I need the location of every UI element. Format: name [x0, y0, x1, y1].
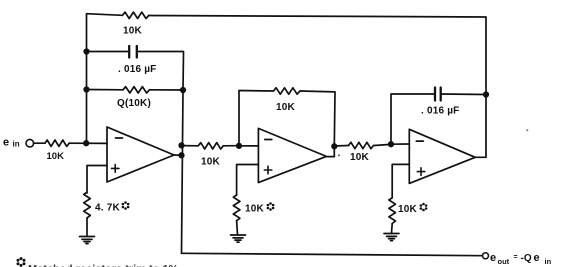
- ground G1: [80, 237, 95, 244]
- node: Q row right junction: [181, 88, 186, 93]
- op-amp U2 plus sign: [264, 166, 272, 174]
- op-amp U1 plus sign: [112, 165, 120, 173]
- wire: main output vertical (Q row to bottom wire): [182, 90, 184, 253]
- svg-text:10K: 10K: [350, 152, 370, 163]
- asterisk after 10K (U2): [267, 202, 275, 211]
- svg-text:-Q: -Q: [521, 253, 532, 264]
- wire: cap to right vertical node: [442, 93, 486, 96]
- svg-text:in: in: [545, 257, 552, 266]
- resistor R7 10K vertical: [389, 198, 396, 224]
- resistor R5 10K vertical: [233, 195, 240, 221]
- node: input node A: [84, 141, 89, 146]
- resistor Q(10K) row: [87, 89, 124, 91]
- wire: top feedback to right corner and down: [149, 16, 486, 95]
- capacitor C2 .016uF plates: [435, 88, 441, 101]
- op-amp U2 minus sign: [265, 139, 272, 141]
- wire: U2 plus input to ground resistor: [237, 165, 259, 196]
- wire: right vertical down to op-amp 3 output: [475, 95, 486, 158]
- wire: to op-amp3 minus node: [374, 144, 392, 145]
- asterisk footnote marker: [17, 257, 26, 267]
- op-amp U1 triangle: [107, 127, 174, 182]
- capacitor C1 row left wire: [87, 51, 129, 53]
- node: U3 minus junction: [389, 142, 394, 147]
- wire: bottom feedback to e out: [182, 253, 483, 255]
- wire: U1 plus input to ground resistor: [87, 166, 107, 194]
- speck: [526, 129, 528, 131]
- input terminal circle: [26, 139, 34, 147]
- svg-text:10K: 10K: [398, 204, 418, 215]
- wire: resistor to ground: [236, 221, 239, 235]
- resistor R4 10K feedback: [274, 88, 301, 94]
- op-amp U1 minus sign: [116, 137, 123, 139]
- asterisk after 10K (U3): [420, 203, 428, 212]
- output terminal circle: [483, 253, 489, 259]
- svg-text:Matched resistors trim to 1%: Matched resistors trim to 1%: [28, 264, 179, 267]
- resistor R-in 10K: [45, 140, 69, 146]
- resistor R3 10K interstage 1-2: [198, 143, 223, 149]
- svg-text:e: e: [534, 252, 540, 264]
- node: U2 output junction: [332, 144, 337, 149]
- node: top feedback / cap2 junction: [484, 92, 489, 97]
- wire: U1 output tip to node: [174, 154, 182, 156]
- wire: resistor to node A and op-amp1 minus input: [69, 142, 107, 144]
- capacitor C1 .016uF plates: [129, 46, 137, 58]
- svg-text:=: =: [514, 254, 518, 261]
- wire: U3 plus input to ground resistor: [392, 164, 409, 197]
- resistor R2 4.7K vertical: [84, 192, 91, 218]
- wire: U2 minus stub: [239, 145, 258, 147]
- svg-text:Q(10K): Q(10K): [117, 98, 151, 109]
- wire: U2 feedback loop up: [239, 91, 274, 146]
- wire: feedback down to U2 output node: [300, 91, 335, 146]
- resistor Q(10K) zigzag: [123, 87, 149, 93]
- wire: resistor to ground: [391, 224, 394, 233]
- ground G2: [231, 235, 246, 242]
- svg-text:10K: 10K: [47, 151, 65, 162]
- node: Q row left junction: [84, 87, 89, 92]
- resistor R-feedback 10K (top): [122, 12, 148, 18]
- wire: U3 cap feedback up: [391, 94, 434, 144]
- node: U1 tip junction: [179, 153, 184, 158]
- wire: node to interstage resistor 2-3: [334, 145, 348, 148]
- node: U1 output branch junction: [179, 143, 184, 148]
- node: cap1 row left junction: [84, 49, 89, 54]
- op-amp U3 minus sign: [416, 140, 423, 142]
- svg-text:in: in: [13, 140, 20, 149]
- svg-text:10K: 10K: [245, 204, 265, 215]
- wire: node to interstage resistor: [182, 145, 199, 147]
- svg-text:e: e: [3, 137, 9, 149]
- svg-text:out: out: [498, 257, 510, 266]
- resistor R6 10K interstage 2-3: [349, 142, 374, 148]
- svg-text:10K: 10K: [201, 157, 221, 168]
- svg-text:. 016 µF: . 016 µF: [421, 106, 460, 117]
- asterisk after 4.7K: [122, 201, 130, 210]
- node: U2 minus junction: [237, 144, 242, 149]
- op-amp U3 triangle: [409, 129, 475, 183]
- speck near U2 output: [338, 154, 340, 156]
- capacitor C1 row right wire down to Q row: [138, 52, 184, 91]
- op-amp U3 plus sign: [417, 168, 425, 176]
- wire: U2 output tip to node: [326, 146, 334, 156]
- wire: top feedback from node A to resistor: [87, 14, 123, 143]
- wire: to op-amp2 minus node: [223, 145, 239, 147]
- svg-text:. 016 µF: . 016 µF: [118, 64, 157, 75]
- ground G3: [384, 234, 399, 241]
- wire: input to resistor: [34, 142, 45, 144]
- op-amp U2 triangle: [258, 128, 326, 182]
- wire: resistor to ground: [86, 218, 88, 236]
- svg-text:4. 7K: 4. 7K: [95, 203, 120, 214]
- svg-text:e: e: [490, 252, 496, 264]
- svg-text:10K: 10K: [123, 26, 143, 37]
- wire: U3 minus stub: [391, 143, 409, 145]
- svg-text:10K: 10K: [276, 102, 296, 113]
